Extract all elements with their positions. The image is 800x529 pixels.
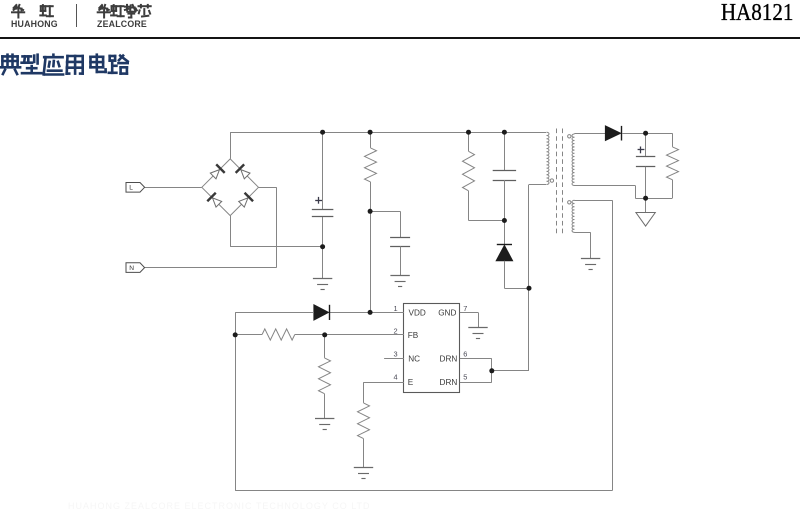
svg-text:VDD: VDD (409, 308, 426, 317)
svg-text:7: 7 (463, 304, 467, 313)
svg-text:GND: GND (438, 308, 456, 317)
svg-text:NC: NC (408, 355, 420, 364)
svg-text:L: L (129, 185, 133, 192)
svg-text:1: 1 (393, 304, 397, 313)
svg-text:DRN: DRN (440, 355, 458, 364)
svg-text:3: 3 (393, 350, 397, 359)
svg-text:E: E (408, 378, 414, 387)
svg-text:FB: FB (408, 331, 419, 340)
svg-text:2: 2 (393, 326, 397, 335)
svg-text:5: 5 (463, 373, 467, 382)
svg-text:N: N (129, 265, 134, 272)
svg-text:DRN: DRN (440, 378, 458, 387)
svg-text:4: 4 (393, 373, 397, 382)
svg-text:6: 6 (463, 350, 467, 359)
